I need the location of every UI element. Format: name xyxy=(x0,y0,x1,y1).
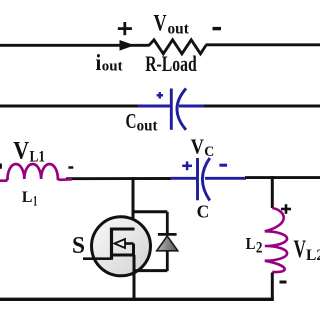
wire drain vertical from input line to MOSFET xyxy=(132,177,135,230)
svg-text:S: S xyxy=(72,232,85,259)
resistor R-Load xyxy=(149,40,206,54)
minus sign V_out xyxy=(213,27,222,30)
wire top output line left segment xyxy=(0,44,150,47)
plus sign V_L1 partial at left edge xyxy=(0,163,2,168)
plus sign C_out xyxy=(157,92,164,99)
plus sign V_C xyxy=(182,161,192,170)
diode triangle xyxy=(157,236,178,251)
capacitor C (V_C) xyxy=(198,158,210,201)
svg-text:C: C xyxy=(197,202,210,222)
wire diode branch top xyxy=(132,210,168,213)
mosfet gate lead xyxy=(83,257,111,260)
mosfet top stub drain xyxy=(111,228,135,231)
svg-text:L2: L2 xyxy=(306,247,320,264)
wire input line right black xyxy=(245,176,320,179)
mosfet channel bar xyxy=(110,228,113,260)
wire diode branch right upper xyxy=(166,212,169,234)
svg-text:out: out xyxy=(137,117,159,134)
svg-text:out: out xyxy=(102,59,123,75)
wire middle C_out line left black xyxy=(0,104,139,107)
wire input line blue left of cap C xyxy=(170,177,197,180)
svg-text:V: V xyxy=(294,236,307,263)
mosfet S body circle xyxy=(92,217,151,276)
wire input line blue right of cap C xyxy=(205,177,246,180)
minus sign V_L2 xyxy=(280,281,287,284)
wire middle C_out line right blue xyxy=(179,105,205,108)
plus sign V_out xyxy=(118,22,132,35)
mosfet body arrow xyxy=(115,239,126,248)
wire bottom return line xyxy=(0,298,274,301)
mosfet source internal vertical xyxy=(132,244,135,257)
current arrow i_out xyxy=(120,40,135,51)
wire middle C_out line left blue xyxy=(138,105,171,108)
wire L2 branch upper vertical xyxy=(271,176,274,208)
inductor L1 xyxy=(0,164,72,181)
wire L2 branch lower vertical xyxy=(271,273,274,301)
wire top output line right segment xyxy=(206,43,320,46)
wire source vertical to bottom wire xyxy=(133,255,136,300)
inductor L2 xyxy=(265,208,287,272)
diode cathode bar xyxy=(158,233,177,236)
svg-text:C: C xyxy=(126,109,137,133)
wire diode branch right lower xyxy=(166,251,169,271)
svg-text:R-Load: R-Load xyxy=(145,51,197,76)
minus sign V_L1 xyxy=(68,166,73,169)
svg-text:V: V xyxy=(13,136,29,165)
svg-text:2: 2 xyxy=(256,239,263,256)
svg-text:V: V xyxy=(154,10,167,35)
mosfet bottom stub source xyxy=(112,254,135,257)
svg-text:C: C xyxy=(204,144,214,160)
mosfet arrow line to source xyxy=(125,242,134,245)
svg-text:1: 1 xyxy=(33,194,37,210)
wire diode branch bottom xyxy=(135,269,167,272)
svg-text:V: V xyxy=(191,135,205,159)
svg-text:L: L xyxy=(246,234,256,253)
wire input line left black to inductor xyxy=(66,177,171,180)
svg-text:L1: L1 xyxy=(30,148,46,165)
svg-text:out: out xyxy=(168,21,190,38)
capacitor C_out xyxy=(171,89,186,130)
svg-text:L: L xyxy=(22,189,33,206)
wire middle C_out line right black xyxy=(204,104,320,107)
plus sign V_L2 xyxy=(281,204,291,214)
minus sign V_C xyxy=(219,164,227,167)
